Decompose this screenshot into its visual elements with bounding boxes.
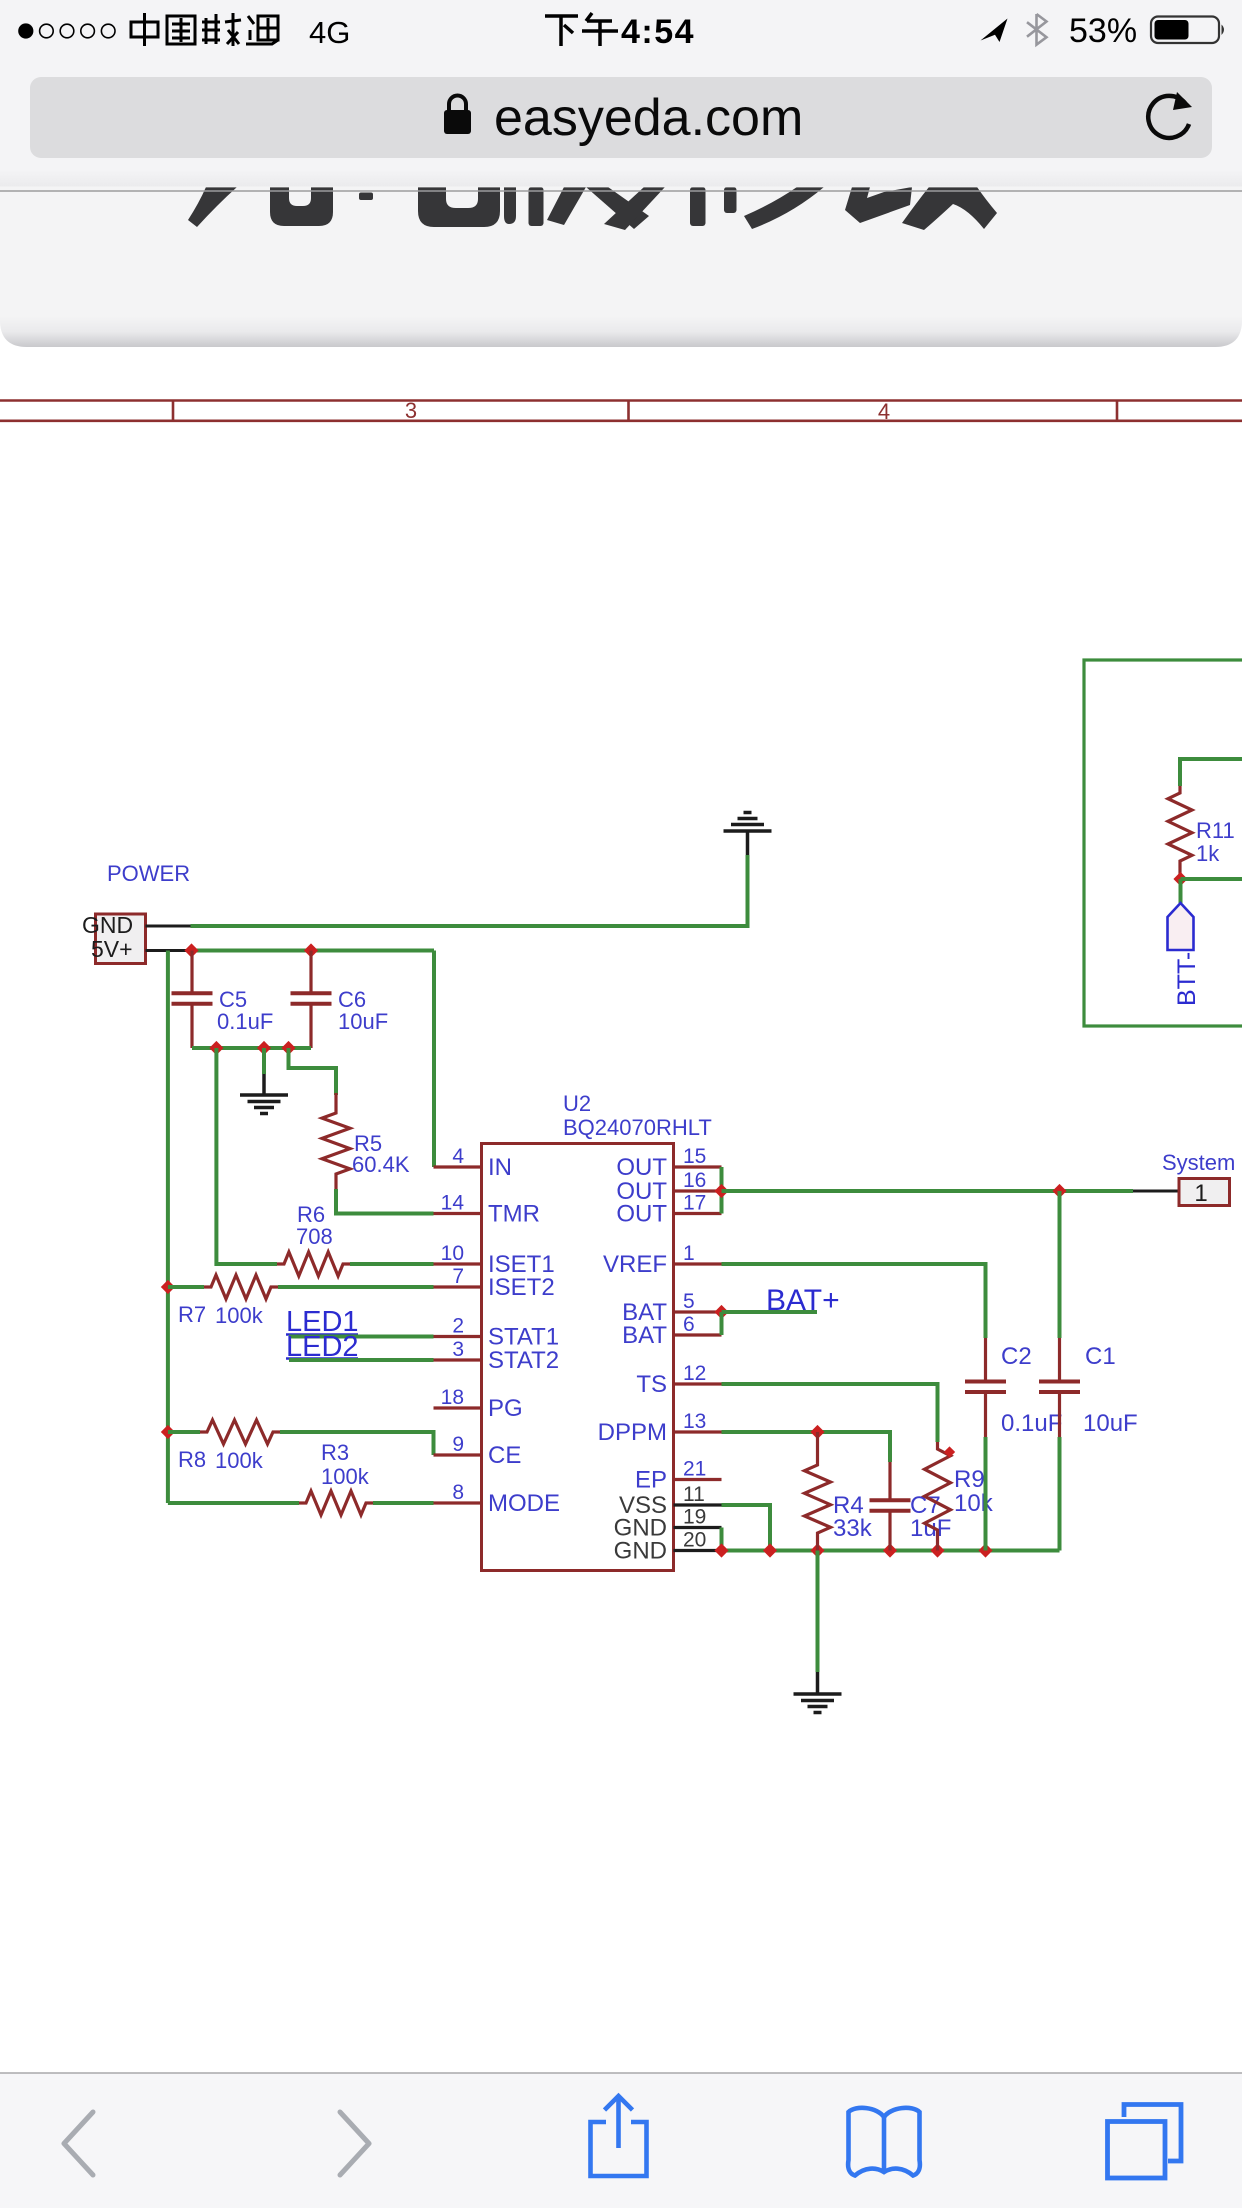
resistor R6 <box>277 1252 350 1276</box>
wire 5V+ to IN pin <box>432 951 436 1168</box>
pin 2 STAT1 (U2 left) <box>434 1335 482 1338</box>
pin 12 TS (U2 right) <box>674 1382 722 1385</box>
junction 5V+/R8 <box>161 1425 175 1439</box>
resistor R3 <box>299 1491 373 1515</box>
svg-text:0.1uF: 0.1uF <box>217 1009 273 1034</box>
wire rail to ground <box>262 1048 266 1074</box>
pin 4 IN (U2 left) <box>434 1165 482 1168</box>
wire GND19 to rail <box>720 1528 724 1551</box>
svg-text:13: 13 <box>683 1410 706 1433</box>
svg-text:1: 1 <box>1194 1180 1207 1207</box>
svg-text:BAT+: BAT+ <box>766 1284 840 1317</box>
pin 15 OUT (U2 right) <box>674 1165 722 1168</box>
subsheet boundary box <box>1084 660 1242 1026</box>
tabs icon <box>1108 2105 1182 2179</box>
connector System pin 1 <box>1133 1190 1179 1193</box>
wire R8 to CE <box>280 1432 434 1455</box>
svg-text:5V+: 5V+ <box>91 936 133 962</box>
svg-text:R3: R3 <box>321 1440 349 1465</box>
pin 3 STAT2 (U2 left) <box>434 1358 482 1361</box>
junction 5V+/C5 <box>184 943 198 957</box>
svg-text:7: 7 <box>452 1265 464 1288</box>
svg-text:3: 3 <box>405 398 417 423</box>
svg-text:System: System <box>1162 1150 1235 1175</box>
junction OUT/C1 <box>1052 1184 1066 1198</box>
pin 10 ISET1 (U2 left) <box>434 1262 482 1265</box>
svg-text:R7: R7 <box>178 1302 206 1327</box>
op-amp/IC U2 BQ24070RHLT body <box>482 1144 674 1571</box>
wire DPPM to R4/C7 <box>722 1432 891 1462</box>
wire STAT2 to LED2 <box>289 1358 434 1362</box>
wire OUT to System <box>722 1189 1134 1193</box>
svg-text:PG: PG <box>488 1395 523 1422</box>
wire R11 junction to right <box>1181 877 1242 881</box>
svg-text:R11: R11 <box>1196 818 1235 843</box>
pin 9 CE (U2 left) <box>434 1453 482 1456</box>
svg-text:0.1uF: 0.1uF <box>1001 1410 1062 1437</box>
bookmarks icon <box>848 2108 920 2176</box>
url bar <box>30 77 1212 158</box>
svg-text:ISET2: ISET2 <box>488 1274 555 1301</box>
svg-text:4G: 4G <box>309 15 350 50</box>
svg-text:16: 16 <box>683 1169 706 1192</box>
wire BAT+ net <box>722 1310 818 1314</box>
frame tick 1 <box>172 401 175 421</box>
svg-text:DPPM: DPPM <box>598 1419 667 1446</box>
svg-text:3: 3 <box>452 1338 464 1361</box>
svg-text:EP: EP <box>635 1467 667 1494</box>
bluetooth icon <box>1027 14 1047 45</box>
svg-text:U2: U2 <box>563 1091 591 1116</box>
junction R9 pin <box>944 1446 955 1457</box>
pin 19 GND (U2 right) <box>674 1526 722 1529</box>
bottom toolbar background <box>0 2073 1242 2208</box>
wire OUT pins link <box>720 1167 724 1214</box>
svg-text:100k: 100k <box>215 1303 264 1328</box>
wire R5 to TMR <box>336 1189 434 1214</box>
svg-text:11: 11 <box>683 1483 705 1506</box>
wire C1 to rail <box>1058 1437 1062 1551</box>
svg-text:CE: CE <box>488 1442 521 1469</box>
wire C2 to rail <box>984 1437 988 1551</box>
pin 16 OUT (U2 right) <box>674 1189 722 1192</box>
ground (bottom) <box>816 1672 820 1694</box>
svg-text:OUT: OUT <box>616 1201 667 1228</box>
svg-text:4: 4 <box>878 399 890 424</box>
wire OUT to C1 <box>1058 1191 1062 1338</box>
svg-text:100k: 100k <box>321 1464 370 1489</box>
svg-text:10: 10 <box>441 1242 464 1265</box>
svg-text:4:54: 4:54 <box>621 13 695 51</box>
connector P1 POWER (GND / 5V+) <box>96 914 146 964</box>
schematic sheet frame top border <box>0 399 1242 402</box>
wire junction to BTT- port <box>1179 879 1183 903</box>
junction R11/BTT- <box>1173 872 1187 886</box>
junction rail/ground <box>257 1041 271 1055</box>
pin 21 EP (U2 right) <box>674 1478 722 1481</box>
svg-text:5: 5 <box>683 1290 695 1313</box>
time 下午4:54 <box>545 13 618 46</box>
svg-text:15: 15 <box>683 1145 706 1168</box>
svg-text:TMR: TMR <box>488 1201 540 1228</box>
pin 6 BAT (U2 right) <box>674 1333 722 1336</box>
carrier name 中国联通 (stroke approximation) <box>131 13 278 46</box>
junction rail/C2 <box>978 1543 992 1557</box>
resistor R5 <box>334 1093 337 1106</box>
resistor R7 <box>168 1285 204 1289</box>
battery icon <box>1151 17 1219 44</box>
pin 17 OUT (U2 right) <box>674 1212 722 1215</box>
svg-text:21: 21 <box>683 1458 706 1481</box>
junction rail/R9 <box>930 1543 944 1557</box>
svg-text:C2: C2 <box>1001 1343 1032 1370</box>
junction rail/C7 <box>883 1543 897 1557</box>
wire BAT5-BAT6 link <box>720 1312 724 1335</box>
svg-text:R9: R9 <box>954 1466 985 1493</box>
junction rail/R5 <box>281 1041 295 1055</box>
pin 11 VSS (U2 right) <box>674 1503 722 1506</box>
wire capacitor ground rail <box>192 1046 311 1050</box>
svg-text:100k: 100k <box>215 1448 264 1473</box>
wire TS to R9 <box>722 1384 938 1442</box>
pin 13 DPPM (U2 right) <box>674 1430 722 1433</box>
resistor R8 <box>168 1430 200 1434</box>
wire 5V+ left vertical drop <box>166 951 170 1504</box>
svg-text:BTT-: BTT- <box>1173 952 1201 1006</box>
wire 5V+ horizontal <box>191 949 435 953</box>
port BTT- <box>1168 903 1194 950</box>
pin 5 BAT (U2 right) <box>674 1310 722 1313</box>
svg-text:18: 18 <box>441 1386 464 1409</box>
svg-text:R8: R8 <box>178 1447 206 1472</box>
junction BAT pins <box>714 1305 728 1319</box>
pin 14 TMR (U2 left) <box>434 1212 482 1215</box>
junction rail/R6-drop <box>209 1041 223 1055</box>
svg-text:2: 2 <box>452 1315 464 1338</box>
junction OUT net <box>714 1184 728 1198</box>
wire rail to bottom ground <box>816 1551 820 1673</box>
resistor R4 <box>816 1432 819 1458</box>
svg-text:easyeda.com: easyeda.com <box>494 89 803 147</box>
svg-text:BQ24070RHLT: BQ24070RHLT <box>563 1115 712 1140</box>
svg-text:GND: GND <box>82 912 133 938</box>
junction 5V+/R7 <box>161 1280 175 1294</box>
svg-text:C1: C1 <box>1085 1343 1116 1370</box>
pin 5V+ of P1 <box>146 949 191 952</box>
svg-text:VREF: VREF <box>603 1251 667 1278</box>
pin 20 GND (U2 right) <box>674 1549 722 1552</box>
resistor R9 <box>925 1442 951 1537</box>
svg-text:10uF: 10uF <box>338 1009 388 1034</box>
pin 1 VREF (U2 right) <box>674 1262 722 1265</box>
page heading (partial Chinese title, clipped) <box>188 187 997 230</box>
svg-text:17: 17 <box>683 1192 706 1215</box>
junction rail/pin20 <box>714 1543 728 1557</box>
junction DPPM/R4 <box>810 1425 824 1439</box>
wire VREF to C2 <box>722 1264 986 1338</box>
share icon <box>591 2096 647 2176</box>
svg-text:GND: GND <box>614 1538 667 1565</box>
wire rail to R5 top <box>289 1048 337 1095</box>
pin 8 MODE (U2 left) <box>434 1501 482 1504</box>
back chevron icon <box>64 2112 93 2175</box>
wire ground rail <box>722 1549 1060 1553</box>
junction rail/VSS <box>763 1543 777 1557</box>
resistor R11 <box>1168 786 1192 868</box>
svg-text:708: 708 <box>296 1224 333 1249</box>
pin GND of P1 <box>146 925 191 928</box>
svg-text:OUT: OUT <box>616 1154 667 1181</box>
svg-text:12: 12 <box>683 1362 706 1385</box>
pin 7 ISET2 (U2 left) <box>434 1285 482 1288</box>
svg-text:14: 14 <box>441 1192 465 1215</box>
svg-text:4: 4 <box>452 1145 464 1168</box>
wire rail down to ISET1/R6 <box>216 1048 277 1264</box>
lock icon <box>444 110 471 134</box>
reload icon <box>1148 96 1189 138</box>
wire R6 to ISET1 <box>350 1262 434 1266</box>
svg-text:60.4K: 60.4K <box>352 1152 410 1177</box>
forward chevron icon <box>340 2112 369 2175</box>
wire R3 to MODE <box>373 1501 434 1505</box>
capacitor C1 <box>1058 1338 1061 1382</box>
svg-text:33k: 33k <box>833 1515 873 1542</box>
capacitor C6 <box>309 951 312 994</box>
pin 18 PG (U2 left) <box>434 1406 482 1409</box>
wire R7 to ISET2 <box>278 1285 434 1289</box>
svg-text:53%: 53% <box>1069 12 1137 50</box>
junction rail/R4 <box>810 1543 824 1557</box>
wire 5V+ to R3 <box>168 1501 299 1505</box>
svg-text:IN: IN <box>488 1154 512 1181</box>
svg-text:10uF: 10uF <box>1083 1410 1138 1437</box>
junction 5V+/C6 <box>304 943 318 957</box>
wire VSS to ground rail <box>722 1505 771 1551</box>
capacitor C5 <box>190 951 193 994</box>
wire STAT1 to LED1 <box>289 1335 434 1339</box>
frame tick 3 <box>1116 401 1119 421</box>
svg-text:BAT: BAT <box>622 1322 667 1349</box>
svg-text:1: 1 <box>683 1242 695 1265</box>
svg-text:9: 9 <box>452 1433 464 1456</box>
svg-text:10k: 10k <box>954 1490 994 1517</box>
ground (top, inverted) <box>746 831 750 855</box>
svg-text:8: 8 <box>452 1481 464 1504</box>
capacitor C7 <box>888 1462 891 1500</box>
gray page band <box>0 160 1242 347</box>
browser chrome background <box>0 0 1242 187</box>
location arrow icon <box>981 19 1008 43</box>
svg-text:MODE: MODE <box>488 1490 560 1517</box>
svg-text:20: 20 <box>683 1529 706 1552</box>
status bar signal dots <box>18 23 33 38</box>
svg-text:POWER: POWER <box>107 861 190 886</box>
wire box top net <box>1180 759 1242 786</box>
svg-text:6: 6 <box>683 1313 695 1336</box>
svg-text:1k: 1k <box>1196 841 1220 866</box>
capacitor C2 <box>984 1338 987 1382</box>
frame tick 2 <box>627 401 630 421</box>
svg-text:TS: TS <box>636 1371 667 1398</box>
svg-text:STAT2: STAT2 <box>488 1347 559 1374</box>
wire GND net <box>191 855 748 926</box>
svg-text:19: 19 <box>683 1506 706 1529</box>
ground (below C5/C6) <box>262 1074 266 1095</box>
